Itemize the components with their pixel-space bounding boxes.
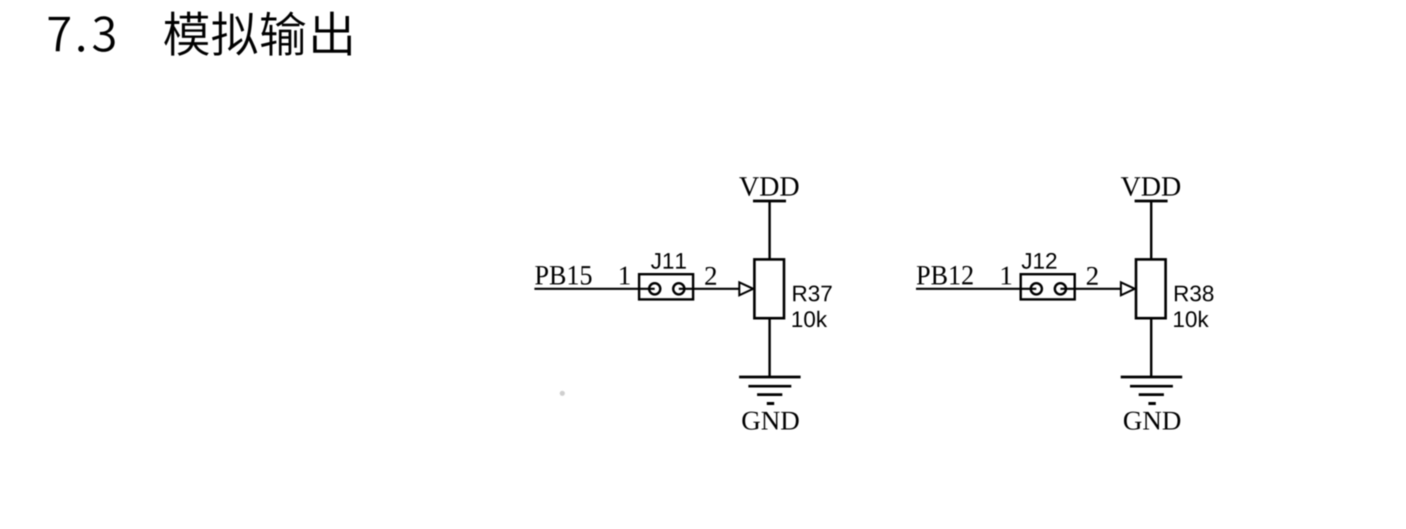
label J12 xyxy=(1022,253,1057,269)
pin 1 stub wire xyxy=(1020,288,1037,290)
jumper J12 pin 1 circle xyxy=(1031,283,1042,294)
jumper J12 pin 2 circle xyxy=(1055,283,1066,294)
wire PB15 to J11 pin 1 xyxy=(534,288,654,290)
label R37 xyxy=(793,285,831,301)
pin number 2 xyxy=(705,267,716,285)
label J11 xyxy=(651,253,686,269)
value label 10k xyxy=(793,311,828,328)
label R38 xyxy=(1175,285,1213,301)
wire J11 pin 2 to wiper arrow xyxy=(679,288,740,290)
wire VDD to R37 xyxy=(768,201,770,260)
pin number 1 xyxy=(620,267,630,285)
net label PB12 xyxy=(917,266,973,285)
wire J12 pin 2 to wiper arrow xyxy=(1060,288,1121,290)
wiper arrow xyxy=(1121,282,1135,295)
pin number 2 xyxy=(1087,267,1098,285)
VDD power bar xyxy=(1135,200,1168,203)
wire PB12 to J12 pin 1 xyxy=(916,288,1036,290)
pin number 1 xyxy=(1002,267,1012,285)
jumper J11 pin 2 circle xyxy=(673,283,684,294)
jumper J12 xyxy=(1021,274,1075,299)
potentiometer R38 body xyxy=(1136,259,1166,318)
VDD label xyxy=(1121,177,1180,196)
wire R37 to ground xyxy=(768,318,770,377)
wire VDD to R38 xyxy=(1150,201,1152,260)
wire R38 to ground xyxy=(1150,318,1152,377)
VDD label xyxy=(739,177,798,196)
jumper J11 pin 1 circle xyxy=(649,283,660,294)
net label PB15 xyxy=(535,266,591,285)
stray faint dot xyxy=(560,391,565,396)
GND label xyxy=(1124,412,1180,430)
value label 10k xyxy=(1174,311,1209,328)
pin 1 stub wire xyxy=(638,288,655,290)
potentiometer R37 body xyxy=(754,259,784,318)
heading 7.3 模拟输出 xyxy=(49,12,351,56)
GND label xyxy=(742,412,798,430)
wiper arrow xyxy=(739,282,753,295)
ground symbol xyxy=(739,377,801,404)
VDD power bar xyxy=(753,200,786,203)
ground symbol xyxy=(1121,377,1183,404)
jumper J11 xyxy=(639,274,693,299)
